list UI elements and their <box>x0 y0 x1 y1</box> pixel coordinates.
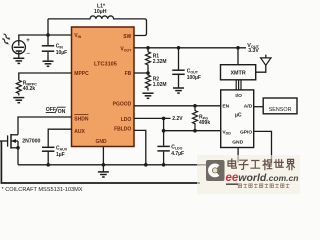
label OFF/ON <box>46 107 66 115</box>
svg-text:GPIO: GPIO <box>240 129 252 135</box>
svg-text:ON: ON <box>58 109 66 115</box>
wire LDO 2.2V <box>134 117 171 119</box>
svg-text:I/O: I/O <box>235 93 242 99</box>
svg-text:XMTR: XMTR <box>230 70 245 76</box>
node RPG bottom dot <box>193 129 197 133</box>
svg-text:LTC3105: LTC3105 <box>94 62 117 68</box>
node RPG top dot <box>193 104 197 108</box>
svg-text:10µH: 10µH <box>94 9 107 15</box>
wire VOUT rail <box>134 47 246 49</box>
box XMTR <box>221 65 256 80</box>
svg-text:AUX: AUX <box>74 129 85 135</box>
wire SW loop <box>134 19 147 36</box>
wire VOUT to XMTR <box>237 48 239 65</box>
antenna <box>256 55 271 73</box>
wire FB <box>134 72 148 74</box>
wire FBLDO to gnd <box>134 130 146 164</box>
svg-text:1µF: 1µF <box>56 152 65 158</box>
wire GPIO down <box>254 131 272 163</box>
wire bus XMTR-uC (3 lines) <box>236 80 241 90</box>
box microcontroller uC <box>221 90 254 148</box>
svg-text:SW: SW <box>123 34 131 40</box>
svg-text:SHDN: SHDN <box>74 116 89 122</box>
svg-text:GND: GND <box>232 140 243 146</box>
svg-text:* COILCRAFT MSS5131-103MX: * COILCRAFT MSS5131-103MX <box>2 187 83 193</box>
svg-text:2N7000: 2N7000 <box>22 139 40 145</box>
transistor Q1 2N7000 <box>0 134 40 165</box>
svg-text:FB: FB <box>125 71 132 77</box>
svg-text:LDO: LDO <box>121 117 132 123</box>
wire VIN node <box>18 35 20 41</box>
wire IC GND pin <box>102 147 104 165</box>
ground (main) <box>98 165 109 177</box>
wire gate to GPIO bottom run <box>1 141 200 183</box>
svg-text:499k: 499k <box>199 120 210 126</box>
svg-text:2.32M: 2.32M <box>153 59 167 65</box>
capacitor CLDO <box>157 144 184 165</box>
node COUT dot <box>177 46 181 50</box>
node CAUX-rail junction <box>46 163 50 167</box>
wire ground rail <box>18 164 206 166</box>
wire A/D to sensor <box>254 106 264 108</box>
node FB dot <box>146 71 150 75</box>
inductor L1 wire up <box>47 19 49 35</box>
capacitor CIN <box>42 35 67 61</box>
light arrows <box>1 33 11 45</box>
svg-text:PGOOD: PGOOD <box>113 102 132 108</box>
inductor L1 <box>48 4 145 19</box>
ground (RMPPC) <box>13 98 24 103</box>
watermark tiny (drawn glyphs) <box>238 184 289 188</box>
svg-text:−: − <box>26 51 30 58</box>
svg-text:4.7µF: 4.7µF <box>171 151 184 157</box>
solar cell PV source <box>12 38 30 57</box>
svg-text:1.02M: 1.02M <box>153 82 167 88</box>
wire PGOOD to EN <box>134 105 221 107</box>
svg-text:FBLDO: FBLDO <box>114 127 131 133</box>
svg-text:EN: EN <box>222 104 229 110</box>
wire AUX <box>48 129 72 146</box>
wire uC GND down <box>237 148 239 163</box>
ground (CIN) <box>43 61 54 66</box>
wire MPPC <box>19 73 72 80</box>
capacitor CAUX <box>42 146 68 165</box>
node R1 dot <box>146 46 150 50</box>
svg-text:MPPC: MPPC <box>74 71 89 77</box>
node CLDO-rail junction <box>162 163 166 167</box>
resistor RMPPC <box>16 80 37 95</box>
svg-text:A/D: A/D <box>244 104 253 110</box>
svg-text:40.2k: 40.2k <box>23 86 36 92</box>
ground (solar) <box>13 54 24 64</box>
svg-text:SENSOR: SENSOR <box>269 107 292 113</box>
watermark chinese title (drawn glyphs) <box>228 159 294 170</box>
watermark tint <box>197 155 300 194</box>
resistor RPG <box>193 106 211 129</box>
watermark logo <box>206 160 225 181</box>
node GND-rail junction <box>102 163 106 167</box>
node FBLDO-rail junction <box>144 163 148 167</box>
wire LDO node down <box>163 118 165 145</box>
svg-text:eeworld.com.cn: eeworld.com.cn <box>226 172 299 184</box>
resistor R2 <box>146 73 167 91</box>
svg-text:3.3V: 3.3V <box>248 48 259 54</box>
svg-text:µC: µC <box>235 113 242 119</box>
wire VDD <box>164 130 221 132</box>
node VIN junction dot <box>46 33 50 37</box>
op IC LTC3105 U1 <box>72 27 135 147</box>
svg-text:10µF: 10µF <box>56 50 67 56</box>
ground (COUT) <box>173 88 184 93</box>
svg-text:100µF: 100µF <box>187 75 201 81</box>
ground (R2) <box>143 93 154 98</box>
box SENSOR <box>263 98 297 114</box>
resistor R1 <box>146 48 167 73</box>
svg-text:+: + <box>26 38 30 44</box>
capacitor COUT <box>172 48 201 88</box>
svg-text:GND: GND <box>95 139 107 145</box>
wire SHDN <box>18 117 72 135</box>
svg-text:2.2V: 2.2V <box>172 116 183 122</box>
node XMTR dot <box>236 46 240 50</box>
